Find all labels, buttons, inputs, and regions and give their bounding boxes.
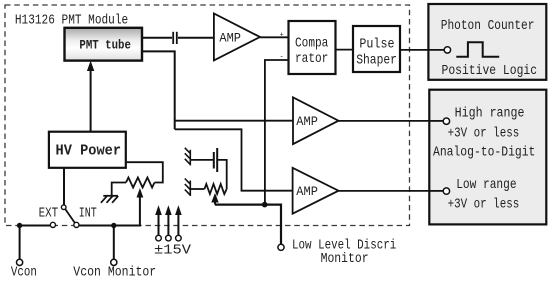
wire Vcon drop [19,226,21,260]
svg-text:Photon Counter: Photon Counter [441,17,535,34]
switch wire from HV Power [63,168,65,205]
svg-text:PMT tube: PMT tube [79,38,131,53]
wire to AMP2 [175,120,293,122]
wire stub into photon counter box [428,49,444,51]
terminal low level discri monitor [278,244,284,250]
svg-text:AMP: AMP [296,185,318,200]
op-amp AMP3 [293,168,339,214]
op-amp AMP2 [293,97,339,144]
potentiometer R1 zigzag [126,178,155,188]
wire AMP1 to comparator + input [260,36,289,38]
junction node Vcon Monitor [111,223,116,228]
svg-text:Positive Logic: Positive Logic [442,62,538,78]
svg-text:Shaper: Shaper [356,51,397,67]
wire AMP2 to high range terminal [339,120,444,122]
wire ground G2 to capacitor C2 [190,159,213,161]
svg-text:H13126 PMT Module: H13126 PMT Module [15,11,128,28]
heavy wire wiper to low level monitor [215,205,281,245]
wire pot R1 left to ground [112,183,126,196]
wire comparator to pulse shaper [336,49,354,51]
capacitor C2 [213,152,215,169]
svg-text:+3V or less: +3V or less [448,125,520,141]
ground G3 [189,181,191,197]
pulse waveform icon [456,42,499,57]
wire PMT top output to capacitor [142,37,172,39]
bottom wire on module border [20,225,51,227]
svg-text:+3V or less: +3V or less [448,197,520,213]
+15V arrow 3 [177,214,179,236]
svg-text:Analog-to-Digit: Analog-to-Digit [433,143,535,159]
wire PMT lower output [142,51,175,129]
+15V arrow 2 [167,214,169,236]
switch lever [65,209,75,223]
pulse shaper box [353,26,400,72]
svg-text:HV Power: HV Power [56,143,122,160]
svg-text:INT: INT [79,205,97,221]
junction node Vcon [17,223,22,228]
svg-text:AMP: AMP [219,31,241,46]
+15V arrow 1 [158,214,160,236]
ground G2 [189,150,191,166]
svg-text:rator: rator [295,50,328,67]
svg-text:Vcon Monitor: Vcon Monitor [73,264,156,280]
wire stub into high range terminal [429,120,443,122]
terminal photon counter [444,47,450,53]
svg-text:Monitor: Monitor [321,250,369,266]
comparator minus input wire [265,60,289,205]
wire branch to AMP3 [175,129,293,190]
wire ground G3 to pot R2 [190,188,204,190]
svg-text:+: + [280,32,284,40]
switch contact EXT [50,222,55,227]
wire stub into low range terminal [429,190,443,192]
svg-text:Pulse: Pulse [359,36,394,52]
wire Vcon Monitor drop [113,226,115,260]
pot R2 wiper arrow [214,200,216,205]
terminal high range [443,118,449,124]
capacitor C1 [172,32,174,44]
terminal Vcon [17,259,23,265]
svg-text:High range: High range [455,105,525,121]
wire capacitor C2 to pot R2 right end [218,160,227,189]
module border (dashed) [5,5,410,226]
svg-text:±15V: ±15V [154,243,191,258]
terminal Vcon Monitor [111,259,117,265]
svg-text:Vcon: Vcon [11,265,37,281]
wire HV Power right to pot R1 [126,162,163,182]
arrow HV Power to PMT tube [90,68,92,132]
wire pulse shaper to photon counter box [400,49,444,51]
comparator box [289,21,336,74]
op-amp AMP1 [214,14,260,61]
PMT tube box [65,28,143,61]
svg-text:AMP: AMP [296,115,318,130]
switch pole circle [61,205,66,210]
photon counter box [428,4,546,80]
ground G1 [103,195,118,197]
svg-text:EXT: EXT [39,206,59,222]
analog output box [429,90,546,225]
potentiometer R2 zigzag [205,184,227,194]
terminal low range [443,188,449,194]
junction dot [262,202,268,208]
HV Power box [49,132,126,168]
switch contact INT [74,222,79,227]
wire capacitor to AMP1 [178,37,214,39]
pot R1 wiper arrow [139,196,141,226]
svg-text:Compa: Compa [295,34,329,51]
svg-text:Low range: Low range [456,176,516,193]
wire AMP3 to low range terminal [339,190,444,192]
